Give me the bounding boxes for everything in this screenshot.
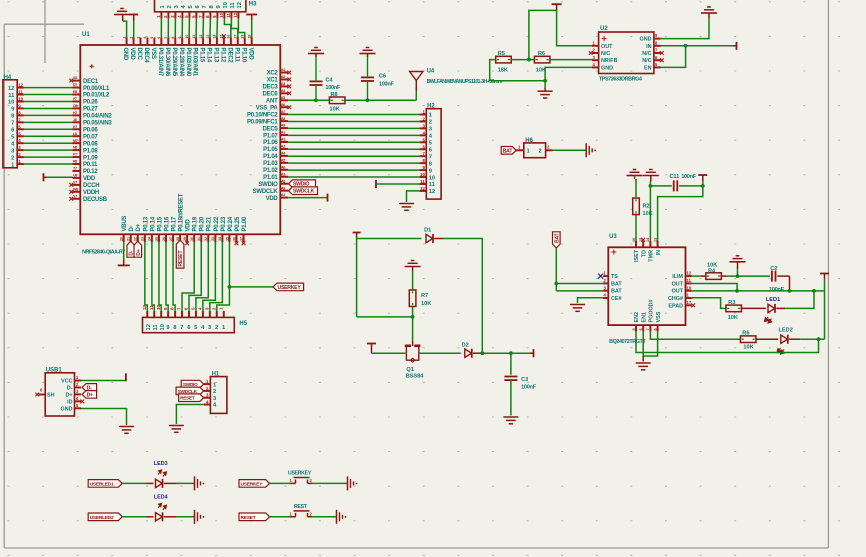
net label RESET (bottom) bbox=[239, 513, 270, 521]
svg-text:22: 22 bbox=[134, 237, 138, 241]
svg-text:12: 12 bbox=[687, 271, 692, 276]
svg-text:C6: C6 bbox=[379, 74, 386, 80]
wire VDD to flag bbox=[288, 197, 327, 199]
svg-text:P1.02: P1.02 bbox=[263, 168, 278, 174]
svg-text:P0.22: P0.22 bbox=[214, 216, 220, 231]
svg-text:GND: GND bbox=[61, 406, 73, 412]
LED LED4 bbox=[147, 495, 177, 522]
svg-text:USERLED2: USERLED2 bbox=[90, 515, 114, 521]
svg-text:SWDCLK: SWDCLK bbox=[253, 189, 279, 195]
svg-text:USERKEY: USERKEY bbox=[241, 481, 264, 487]
wire ISET to R2 bbox=[635, 215, 637, 242]
wire EN1 down bbox=[643, 331, 650, 356]
svg-text:ANT: ANT bbox=[266, 99, 278, 105]
svg-text:IN: IN bbox=[656, 250, 662, 255]
svg-text:18: 18 bbox=[241, 35, 245, 39]
svg-text:A8: A8 bbox=[281, 179, 285, 183]
transistor Q1 BSS84 bbox=[405, 341, 425, 380]
svg-text:P0.08: P0.08 bbox=[83, 141, 98, 147]
svg-text:D2: D2 bbox=[462, 343, 469, 349]
svg-text:10K: 10K bbox=[728, 315, 738, 321]
svg-text:A9: A9 bbox=[281, 124, 285, 128]
resistor R4 bbox=[700, 263, 726, 280]
svg-text:32: 32 bbox=[204, 237, 208, 241]
wire LED4 to ground bbox=[176, 516, 195, 518]
power flag VCC bbox=[125, 373, 127, 381]
svg-text:E8: E8 bbox=[73, 90, 77, 94]
svg-text:P0.20: P0.20 bbox=[200, 216, 206, 231]
capacitor C4 bbox=[310, 57, 341, 100]
svg-text:100nF: 100nF bbox=[521, 385, 537, 391]
svg-text:GND: GND bbox=[640, 37, 652, 43]
wire left branch down bbox=[357, 239, 413, 317]
LED LED2 bbox=[756, 328, 800, 355]
power flag left of Q1 bbox=[367, 344, 376, 354]
U3 TD no-connect bbox=[641, 238, 645, 242]
ground below CE bbox=[570, 305, 585, 312]
wire button to ground bbox=[312, 482, 348, 484]
svg-text:100nF: 100nF bbox=[681, 174, 697, 180]
resistor R8 bbox=[329, 92, 345, 113]
svg-text:SWDIO: SWDIO bbox=[258, 182, 278, 188]
svg-text:A4: A4 bbox=[281, 89, 285, 93]
node R7 junction bbox=[411, 315, 415, 319]
svg-text:6: 6 bbox=[639, 328, 643, 330]
svg-text:11: 11 bbox=[226, 13, 231, 18]
svg-text:A5: A5 bbox=[281, 96, 285, 100]
svg-text:TPS73633DRBRG4: TPS73633DRBRG4 bbox=[599, 77, 642, 83]
net label RESET (vertical) bbox=[176, 240, 184, 268]
wire H6 pin2 to ground bbox=[553, 149, 587, 151]
net label D- (vertical) bbox=[127, 241, 135, 257]
svg-text:10: 10 bbox=[8, 100, 14, 106]
net label D+ (USB) bbox=[82, 391, 97, 399]
svg-text:24: 24 bbox=[148, 237, 152, 241]
wire R4 to C2 bbox=[726, 275, 770, 277]
svg-text:17: 17 bbox=[234, 35, 238, 39]
wire VCC to power flag bbox=[81, 380, 126, 382]
svg-text:P0.29/AIN5: P0.29/AIN5 bbox=[171, 48, 177, 77]
svg-text:GND: GND bbox=[601, 65, 613, 71]
power flag VDD left of U1 bbox=[44, 173, 47, 181]
net label USERKEY (mid) bbox=[273, 283, 304, 291]
resistor R2 bbox=[633, 198, 653, 217]
svg-text:D+: D+ bbox=[65, 392, 72, 398]
svg-text:A6: A6 bbox=[281, 165, 285, 169]
svg-text:R4: R4 bbox=[708, 269, 716, 275]
node OUT jog junction bbox=[735, 289, 739, 293]
svg-text:USERKEY: USERKEY bbox=[288, 471, 312, 477]
svg-text:P0.05/AIN3: P0.05/AIN3 bbox=[83, 121, 112, 127]
svg-text:TS: TS bbox=[611, 274, 618, 280]
svg-text:7: 7 bbox=[202, 5, 208, 8]
svg-text:DEC1: DEC1 bbox=[83, 79, 99, 85]
power flag right (mid rail) bbox=[530, 349, 534, 357]
svg-text:VDD: VDD bbox=[266, 196, 279, 202]
wire H2 pin 12 to ground bbox=[407, 191, 420, 202]
svg-text:14: 14 bbox=[213, 35, 217, 39]
ground below H1 bbox=[169, 426, 184, 433]
svg-text:P0.16: P0.16 bbox=[164, 216, 170, 231]
U1 right pins bbox=[247, 68, 288, 202]
svg-text:V7: V7 bbox=[73, 180, 77, 184]
svg-text:VDD: VDD bbox=[83, 176, 96, 182]
svg-text:R8: R8 bbox=[73, 160, 77, 164]
diode D2 bbox=[462, 343, 483, 358]
net label BAT (H6) bbox=[501, 147, 516, 155]
svg-text:P0.01/XL2: P0.01/XL2 bbox=[83, 93, 110, 99]
ground above ILIM wire bbox=[730, 256, 746, 276]
svg-text:P1.10: P1.10 bbox=[240, 48, 246, 63]
svg-text:TMR: TMR bbox=[649, 250, 655, 262]
svg-text:P0.25: P0.25 bbox=[235, 216, 241, 231]
svg-text:BWLFANWBVANUPS1101-3H+50mm: BWLFANWBVANUPS1101-3H+50mm bbox=[427, 79, 503, 85]
wire LED3 to ground bbox=[176, 482, 195, 484]
svg-text:H1: H1 bbox=[212, 372, 220, 378]
svg-text:P0.12: P0.12 bbox=[83, 169, 98, 175]
svg-text:2: 2 bbox=[11, 155, 14, 161]
wire ILIM to R4 bbox=[692, 275, 701, 277]
svg-text:OUT: OUT bbox=[601, 44, 613, 50]
wire OUT pin11 jog bbox=[692, 284, 737, 291]
svg-text:H7: H7 bbox=[73, 111, 77, 115]
diode D1 bbox=[424, 228, 443, 244]
svg-text:P0.30/AIN6: P0.30/AIN6 bbox=[164, 48, 170, 77]
svg-text:2: 2 bbox=[167, 5, 173, 8]
power flag VDD right of H3 bbox=[246, 15, 257, 21]
svg-text:11: 11 bbox=[18, 90, 23, 95]
svg-text:LED3: LED3 bbox=[154, 461, 168, 467]
resistor R7 bbox=[409, 290, 431, 307]
svg-text:H6: H6 bbox=[525, 138, 533, 144]
svg-text:5: 5 bbox=[150, 37, 154, 39]
wire Q1 drain to D2 bbox=[420, 352, 461, 354]
svg-text:U3: U3 bbox=[609, 234, 617, 240]
svg-text:36: 36 bbox=[232, 237, 236, 241]
net label D+ (vertical) bbox=[134, 241, 142, 257]
U1 top no-connect X marks bbox=[222, 34, 226, 38]
wire gnd stub bbox=[642, 356, 644, 362]
ground above R7 bbox=[405, 261, 421, 272]
power flag VDD right of U1 bbox=[327, 194, 329, 202]
svg-text:26: 26 bbox=[162, 237, 166, 241]
node ANT junction C6 bbox=[366, 98, 370, 102]
wire PGOOD to R6 bbox=[650, 331, 740, 339]
power flag left of H2 pin11 bbox=[375, 180, 377, 188]
svg-text:VSS: VSS bbox=[150, 48, 156, 60]
power flag VDD above U1 bbox=[129, 15, 138, 22]
svg-text:CHG#: CHG# bbox=[668, 296, 683, 302]
svg-text:DEC2: DEC2 bbox=[226, 48, 232, 64]
capacitor C3 bbox=[504, 377, 536, 391]
capacitor C11 bbox=[669, 174, 696, 191]
wire U2 GND pin down bbox=[545, 67, 592, 88]
svg-text:10: 10 bbox=[185, 35, 189, 39]
svg-text:LED4: LED4 bbox=[154, 495, 168, 501]
svg-text:BSS84: BSS84 bbox=[406, 374, 425, 380]
svg-text:12: 12 bbox=[8, 86, 14, 92]
svg-text:A4: A4 bbox=[281, 152, 285, 156]
svg-text:27: 27 bbox=[169, 237, 173, 241]
power flag OUT rail bbox=[820, 274, 829, 280]
wire R5 left to GND net bbox=[490, 60, 545, 81]
svg-text:P1.04: P1.04 bbox=[263, 154, 278, 160]
svg-text:BAT: BAT bbox=[554, 232, 560, 243]
svg-text:11: 11 bbox=[153, 324, 159, 331]
svg-text:D7: D7 bbox=[73, 83, 77, 87]
IC U2 TPS73633 bbox=[592, 26, 661, 83]
svg-text:N/C: N/C bbox=[642, 58, 651, 64]
svg-text:LED1: LED1 bbox=[766, 297, 780, 303]
svg-text:12: 12 bbox=[237, 2, 243, 8]
svg-text:P7: P7 bbox=[73, 153, 77, 157]
svg-text:TD: TD bbox=[641, 250, 647, 257]
ground below U2 bbox=[538, 88, 553, 98]
net label USERKEY (bottom) bbox=[239, 480, 270, 488]
svg-text:30: 30 bbox=[190, 237, 194, 241]
svg-text:12: 12 bbox=[420, 186, 425, 191]
svg-text:P0.24: P0.24 bbox=[228, 216, 234, 231]
svg-text:11: 11 bbox=[687, 278, 692, 283]
svg-text:10K: 10K bbox=[643, 211, 653, 217]
svg-text:2: 2 bbox=[129, 37, 133, 39]
svg-text:11: 11 bbox=[8, 93, 15, 99]
svg-text:A7: A7 bbox=[281, 172, 285, 176]
svg-text:DCC: DCC bbox=[136, 48, 142, 61]
svg-text:RESET: RESET bbox=[241, 515, 256, 521]
wires U1 bottom to H5 bbox=[145, 242, 230, 311]
svg-text:4: 4 bbox=[143, 37, 147, 39]
svg-text:P0.18/#RESET: P0.18/#RESET bbox=[179, 193, 185, 231]
wire C2 drop to OUT rail bbox=[789, 276, 791, 291]
connector H5 bbox=[142, 305, 248, 333]
svg-text:P0.28/AIN4: P0.28/AIN4 bbox=[178, 48, 184, 77]
svg-text:A7: A7 bbox=[281, 110, 285, 114]
svg-text:D-: D- bbox=[67, 385, 73, 391]
wire LED2 right bbox=[800, 338, 824, 340]
connector H1 bbox=[204, 372, 227, 414]
U1 top pins bbox=[122, 35, 253, 77]
svg-text:G8: G8 bbox=[73, 104, 77, 108]
net label SWDIO (H1) bbox=[181, 380, 204, 388]
svg-text:VBUS: VBUS bbox=[122, 216, 128, 232]
wire D1 to right branch bbox=[444, 239, 483, 354]
svg-text:31: 31 bbox=[197, 237, 201, 241]
ground above U2 (earth) bbox=[701, 7, 717, 18]
svg-text:A9: A9 bbox=[281, 186, 285, 190]
svg-text:NRF52840-QIAA-R7: NRF52840-QIAA-R7 bbox=[82, 250, 125, 256]
svg-text:USB1: USB1 bbox=[46, 368, 63, 374]
svg-text:D+: D+ bbox=[136, 249, 142, 255]
svg-text:T7: T7 bbox=[73, 167, 77, 171]
resistor R6 (LED2) bbox=[740, 331, 756, 351]
svg-text:P1.00: P1.00 bbox=[242, 216, 248, 231]
svg-text:9: 9 bbox=[178, 37, 182, 39]
svg-text:10: 10 bbox=[420, 172, 425, 177]
U1 left no-connect X marks bbox=[69, 79, 73, 201]
wire LED1 to OUT rail bbox=[785, 291, 814, 309]
svg-text:13: 13 bbox=[206, 35, 210, 39]
svg-text:35: 35 bbox=[225, 237, 229, 241]
connector USB1 bbox=[39, 368, 82, 417]
svg-text:P0.02/AIN0: P0.02/AIN0 bbox=[185, 48, 191, 77]
svg-text:Y7: Y7 bbox=[73, 194, 77, 198]
ground right of RESET bbox=[337, 510, 347, 524]
svg-text:P1.12: P1.12 bbox=[220, 48, 226, 63]
node C3 tap bbox=[509, 351, 513, 355]
svg-text:P1.11: P1.11 bbox=[233, 48, 239, 63]
svg-text:BAT: BAT bbox=[503, 148, 514, 154]
connector H4 bbox=[3, 75, 24, 168]
svg-text:D-: D- bbox=[129, 225, 135, 231]
svg-text:BAT: BAT bbox=[611, 281, 622, 287]
ground below USB1 bbox=[119, 427, 134, 434]
svg-text:C11: C11 bbox=[669, 174, 679, 180]
wire CE to ground bbox=[578, 298, 604, 303]
svg-text:USERKEY: USERKEY bbox=[278, 285, 302, 291]
wire OUT rail riser to flag bbox=[824, 279, 826, 291]
svg-text:VDD: VDD bbox=[247, 48, 253, 61]
node C2 junction bbox=[788, 289, 792, 293]
svg-text:10K: 10K bbox=[330, 107, 340, 113]
svg-text:U1: U1 bbox=[82, 32, 90, 38]
U1 bottom pins bbox=[120, 193, 248, 242]
wire EN2 loop bbox=[636, 331, 819, 352]
svg-text:100nF: 100nF bbox=[769, 287, 785, 293]
node D1/D2 junction bbox=[480, 351, 484, 355]
svg-text:USERLED1: USERLED1 bbox=[90, 481, 114, 487]
svg-text:D+: D+ bbox=[136, 223, 142, 231]
svg-text:11: 11 bbox=[230, 2, 236, 9]
svg-text:P0.17: P0.17 bbox=[171, 216, 177, 231]
svg-text:A5: A5 bbox=[281, 158, 285, 162]
svg-text:DEC6: DEC6 bbox=[262, 92, 278, 98]
svg-text:16: 16 bbox=[632, 238, 636, 242]
svg-text:P1.08: P1.08 bbox=[83, 148, 98, 154]
svg-text:VSS_PA: VSS_PA bbox=[256, 105, 279, 111]
net label BAT (vertical) bbox=[553, 232, 561, 248]
svg-text:ILIM: ILIM bbox=[672, 274, 683, 280]
svg-text:EN1: EN1 bbox=[641, 312, 647, 323]
U1 bottom no-connect X marks bbox=[185, 241, 245, 245]
svg-text:DEC4: DEC4 bbox=[143, 48, 149, 64]
svg-text:7: 7 bbox=[429, 154, 432, 160]
svg-text:11: 11 bbox=[420, 179, 425, 184]
svg-text:SWDCLK: SWDCLK bbox=[293, 189, 315, 195]
net label USERLED2 bbox=[88, 513, 122, 521]
resistor R6 bbox=[534, 51, 550, 74]
svg-text:GND: GND bbox=[122, 48, 128, 62]
wires H3 to U1 top bbox=[161, 18, 244, 37]
wire ground to R7 bbox=[412, 271, 414, 290]
svg-text:7: 7 bbox=[180, 325, 183, 331]
svg-text:P1.14: P1.14 bbox=[206, 48, 212, 63]
svg-text:7: 7 bbox=[164, 37, 168, 39]
svg-text:11: 11 bbox=[192, 35, 196, 39]
net label SWDCLK (H1) bbox=[176, 387, 204, 395]
svg-text:A2: A2 bbox=[281, 138, 285, 142]
svg-text:R7: R7 bbox=[421, 293, 428, 299]
wires U1 right to H2 bbox=[288, 115, 420, 178]
wire GND to ground bbox=[81, 409, 127, 426]
svg-text:A1: A1 bbox=[281, 68, 285, 72]
svg-text:ISET: ISET bbox=[634, 249, 640, 262]
ground right of LED3 bbox=[195, 476, 205, 490]
node USERKEY tap bbox=[228, 285, 232, 289]
svg-text:A1: A1 bbox=[281, 193, 285, 197]
svg-text:A1: A1 bbox=[281, 131, 285, 135]
svg-text:RESET: RESET bbox=[178, 250, 184, 267]
wire C11 right to IN riser bbox=[679, 185, 703, 187]
svg-text:5: 5 bbox=[632, 328, 636, 330]
svg-text:1: 1 bbox=[122, 37, 126, 39]
svg-text:34: 34 bbox=[218, 237, 222, 241]
svg-text:J8: J8 bbox=[73, 118, 77, 122]
wire USERKEY bbox=[229, 286, 273, 288]
wire U2 GND9 to earth bbox=[661, 18, 710, 38]
node R5R6 junction bbox=[527, 58, 531, 62]
net label D- (USB) bbox=[82, 384, 97, 392]
wire OUT flag rail down bbox=[824, 291, 826, 339]
power flag VIN bbox=[733, 42, 737, 50]
node LED1 riser junction bbox=[812, 289, 816, 293]
svg-text:13: 13 bbox=[653, 238, 657, 242]
svg-text:Q1: Q1 bbox=[406, 367, 413, 373]
svg-text:N8: N8 bbox=[73, 146, 77, 150]
net label RESET (H1) bbox=[179, 394, 204, 402]
svg-text:VDDH: VDDH bbox=[83, 190, 99, 196]
svg-text:10: 10 bbox=[160, 324, 166, 330]
svg-text:VDD: VDD bbox=[129, 48, 135, 61]
ground GND above U1 bbox=[114, 9, 130, 22]
ground above TMR bbox=[643, 170, 659, 182]
wire C11 left bbox=[650, 185, 672, 187]
svg-text:P0.06: P0.06 bbox=[83, 127, 98, 133]
svg-text:R6: R6 bbox=[742, 331, 749, 337]
ground above R2 bbox=[627, 170, 643, 182]
svg-text:P1.06: P1.06 bbox=[263, 140, 278, 146]
svg-text:16: 16 bbox=[227, 35, 231, 39]
svg-text:P1.09: P1.09 bbox=[83, 155, 98, 161]
svg-text:100nF: 100nF bbox=[325, 85, 341, 91]
svg-text:P0.11: P0.11 bbox=[83, 162, 98, 168]
wire U2 IN to power bar bbox=[661, 45, 733, 47]
svg-text:U2: U2 bbox=[600, 26, 608, 32]
wire GND pin to ground bbox=[123, 21, 127, 38]
wire OUT loop to power flag bbox=[529, 10, 592, 59]
ground below C3 bbox=[503, 417, 518, 424]
svg-text:REST: REST bbox=[294, 504, 308, 510]
svg-text:EN2: EN2 bbox=[634, 312, 640, 323]
svg-text:7: 7 bbox=[646, 328, 650, 330]
wire top rail to D1 bbox=[357, 238, 422, 240]
svg-text:DEC3: DEC3 bbox=[262, 85, 278, 91]
antenna U4 bbox=[410, 69, 503, 92]
svg-text:37: 37 bbox=[239, 237, 243, 241]
svg-text:8: 8 bbox=[171, 37, 175, 39]
wire H1 pin4 to ground bbox=[176, 405, 203, 425]
capacitor C2 bbox=[769, 266, 789, 293]
svg-text:CE#: CE# bbox=[611, 296, 622, 302]
power flag above IN riser bbox=[698, 175, 707, 182]
ground below H2 bbox=[399, 204, 414, 211]
switch USERKEY bbox=[288, 471, 313, 484]
U1 right no-connect X marks bbox=[287, 71, 291, 110]
svg-text:H4: H4 bbox=[4, 75, 12, 81]
wire to button bbox=[270, 516, 291, 518]
wire CHG# to R3 bbox=[692, 298, 726, 309]
svg-text:20: 20 bbox=[120, 237, 124, 241]
